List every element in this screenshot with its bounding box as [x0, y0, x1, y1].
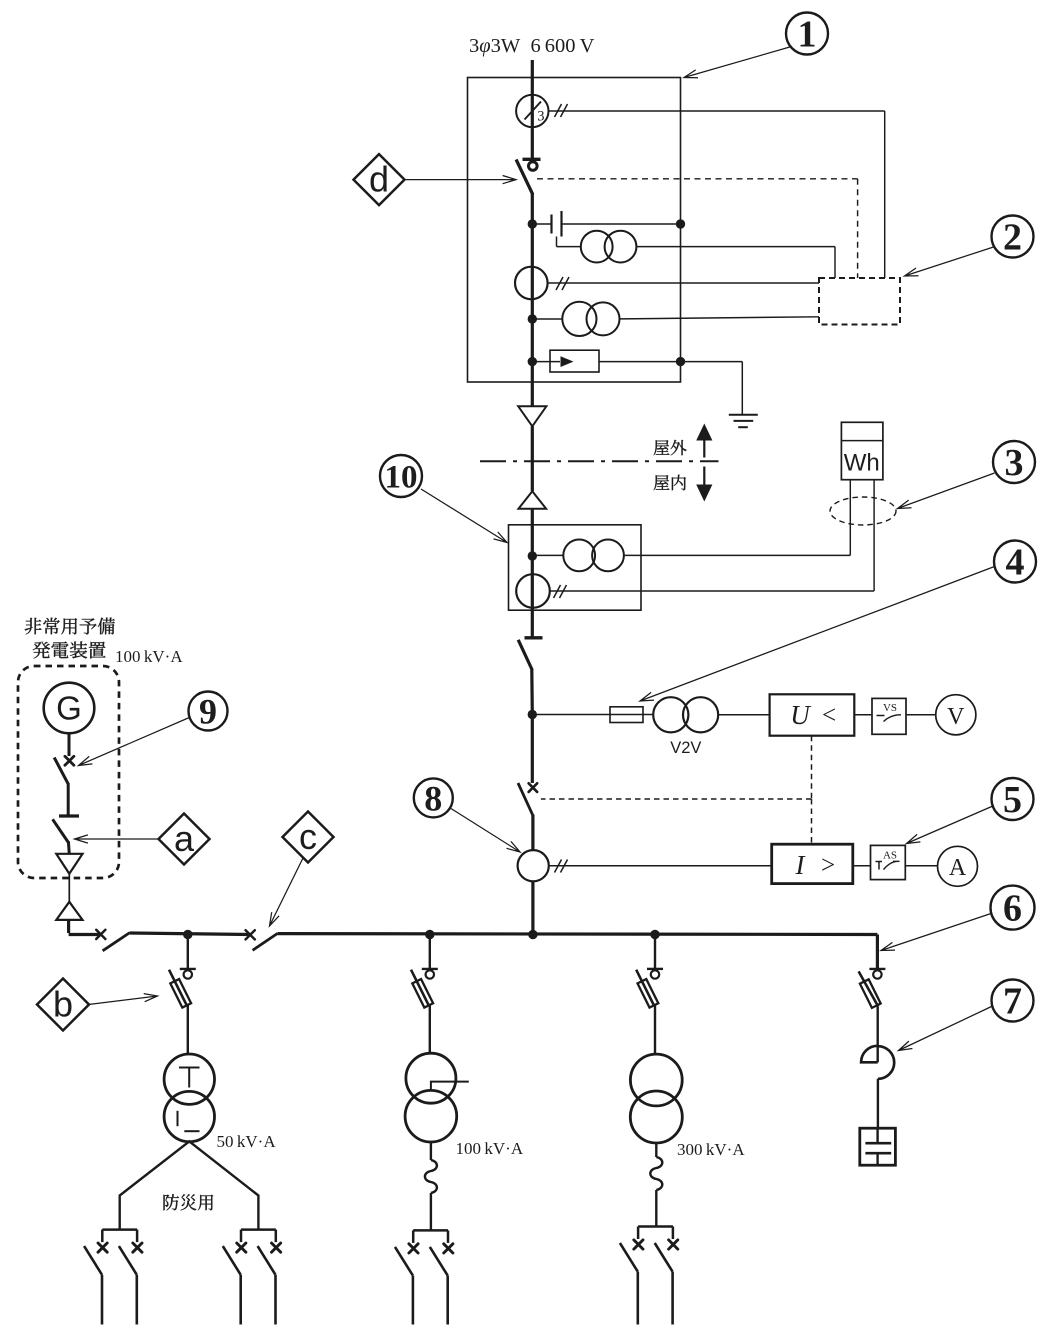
wire VT1 to GR box [636, 246, 835, 248]
wire fuse to 100kVA transformer [429, 1006, 431, 1054]
label indoor 屋内 [654, 475, 686, 491]
transformer VT2 (metering) [532, 318, 562, 320]
node bus tap 100kVA [425, 930, 434, 939]
svg-text:4: 4 [1006, 542, 1025, 584]
callout circle 3 with arrow [898, 473, 995, 509]
wire incoming feeder [531, 60, 534, 159]
VCT metering unit box (callout 10) [509, 525, 642, 610]
cutout PC with fuse - 50kVA branch (callout b) [187, 935, 189, 969]
wire VT2 to GR box [620, 317, 820, 319]
ammeter A [938, 846, 978, 886]
cutout PC with fuse - 100kVA branch [429, 935, 431, 969]
wire 50kVA secondary V-split [120, 1141, 259, 1229]
cable head outdoor (down triangle) [518, 406, 546, 426]
svg-text:a: a [174, 818, 195, 859]
GR ground relay unit dashed box (callout 2) [819, 278, 900, 325]
svg-text:7: 7 [1003, 981, 1022, 1023]
circuit breaker CB [529, 783, 538, 792]
label outdoor 屋外 [654, 440, 687, 455]
callout circle 6 with arrow [881, 914, 991, 951]
metering coupling dashed ellipse (callout 3) [830, 497, 896, 525]
svg-text:100 kV·A: 100 kV·A [115, 647, 183, 666]
CT2 in VCT (circle on main line) [516, 574, 550, 608]
node bus tap main CB [528, 930, 537, 939]
wire OCR to AS switch [853, 865, 871, 867]
wire cable head to boundary [531, 426, 534, 491]
arrow up outdoor side [696, 424, 712, 441]
callout circle 9 with arrow [79, 717, 191, 766]
diamond label b with arrow [89, 994, 158, 1005]
svg-text:1: 1 [798, 14, 817, 56]
wire ZCT secondary with double-slash mark [549, 110, 885, 112]
wire bus right end down to capacitor cutout [876, 935, 879, 969]
wire indoor cable head into VCT box [531, 509, 534, 556]
generator enclosure dashed rounded box [18, 666, 119, 878]
node main-line junction C [528, 357, 537, 366]
transformer T2 100kVA [406, 1053, 456, 1103]
cutout PC with fuse - capacitor branch [869, 968, 885, 970]
svg-text:Wh: Wh [844, 450, 880, 477]
fuse PF for VT (callout 4) [610, 707, 643, 723]
svg-text:>: > [821, 852, 835, 879]
node main-line junction B [528, 314, 537, 323]
svg-text:AS: AS [883, 850, 897, 862]
wire junction D to PF fuse [532, 714, 610, 716]
svg-text:9: 9 [199, 691, 217, 731]
cutout PC with fuse - 300kVA branch [654, 935, 656, 969]
disconnector DS2 [525, 636, 543, 639]
breaker group MCCB 50kVA right [241, 1228, 276, 1231]
bus main horizontal busbar (callout 6) [69, 933, 101, 936]
node junction in VCT box [528, 551, 537, 560]
dashed trip wire DS1 to GR box [537, 178, 858, 180]
wire fuse to series reactor [877, 1007, 879, 1063]
transformer T3 300kVA [630, 1054, 682, 1106]
callout circle 8 with arrow [451, 809, 520, 853]
svg-text:A: A [949, 855, 967, 881]
breaker group MCCB 100kVA [413, 1229, 448, 1232]
wire flexible conductor 100kVA [430, 1142, 432, 1160]
diamond label d with arrow [406, 176, 517, 184]
disconnector DS1 (callout d) [523, 158, 541, 161]
arrow down indoor side [703, 467, 705, 485]
svg-text:10: 10 [385, 459, 418, 495]
svg-text:b: b [53, 983, 73, 1024]
series reactor SR (callout 7) [861, 1046, 878, 1063]
node bus tap 50kVA [183, 930, 192, 939]
wire fuse to 50kVA transformer [187, 1006, 189, 1055]
label fire-protection 防災用 [164, 1194, 214, 1210]
wire AS to ammeter [905, 865, 937, 867]
svg-text:8: 8 [424, 778, 442, 818]
svg-text:VS: VS [883, 702, 897, 714]
wire fuse to V2V transformer [643, 714, 653, 716]
wire fuse to 300kVA transformer [654, 1006, 656, 1056]
svg-text:V: V [947, 704, 965, 730]
svg-text:I: I [795, 850, 807, 880]
wire DS1 to junction [531, 194, 534, 225]
triangle connector upper (generator tie) [56, 854, 82, 874]
transformer T1 50kVA single-phase [164, 1054, 214, 1104]
wire main junction B to C [531, 319, 534, 362]
breaker group MCCB 50kVA left [102, 1228, 137, 1231]
node bus tap 300kVA [650, 930, 659, 939]
svg-text:3: 3 [537, 108, 544, 124]
diamond label c with arrow [270, 858, 304, 926]
enclosure box of incoming switchgear (callout 1) [468, 78, 681, 383]
callout circle 4 with arrow [640, 567, 995, 702]
node arrester output on enclosure edge [676, 357, 685, 366]
ground earth electrode of arrester [729, 414, 758, 416]
svg-text:50 kV·A: 50 kV·A [217, 1132, 277, 1151]
callout circle 1 with arrow [684, 47, 792, 78]
svg-text:5: 5 [1003, 779, 1022, 821]
svg-text:c: c [299, 816, 317, 857]
kilowatt-hour meter Wh [841, 422, 883, 479]
svg-text:2: 2 [1003, 217, 1022, 259]
wire CT3 secondary to OCR [549, 865, 772, 867]
disconnector on bus left of generator tie [96, 930, 105, 939]
breaker group MCCB 300kVA [638, 1225, 673, 1228]
generator G [44, 683, 95, 734]
wire switch to contact bar [67, 783, 70, 815]
callout circle 7 with arrow [899, 1007, 992, 1051]
wire V2V to undervoltage relay [718, 714, 769, 716]
svg-text:V2V: V2V [670, 739, 701, 757]
overcurrent relay I&gt; box [772, 844, 853, 883]
wire arrester to earth [681, 361, 742, 363]
undervoltage relay U&lt; box [770, 694, 855, 735]
ammeter changeover switch AS [871, 845, 906, 879]
svg-text:<: < [822, 702, 836, 729]
CT3 current transformer (callout 8) [518, 850, 549, 881]
transformer VT4 V2V [653, 697, 688, 732]
svg-text:6: 6 [1003, 888, 1022, 930]
callout circle 2 with arrow [905, 247, 994, 276]
diamond label a with arrow [75, 835, 160, 843]
voltmeter changeover switch VS [872, 698, 906, 734]
label generator unit 発電装置 [33, 641, 106, 658]
wire VCT box to DS2 [531, 610, 534, 637]
wire main below enclosure [531, 362, 534, 406]
boundary dash-dot line outdoor/indoor [480, 460, 719, 462]
wire ZCT secondary drop to GR box [884, 111, 886, 278]
switch generator CB (callout 9) [65, 756, 74, 765]
wire junction D to breaker [531, 715, 534, 784]
callout circle 5 with arrow [907, 806, 995, 844]
disconnector on bus (callout c) [246, 930, 255, 939]
wire reactor to capacitor [877, 1079, 879, 1128]
contact bar of interlock switch a [59, 814, 79, 817]
wire generator to switch [68, 733, 71, 756]
svg-text:U: U [790, 700, 811, 730]
CT1 current transformer (circle on main line) [515, 267, 548, 300]
wire main through CT2 [531, 556, 534, 610]
power capacitor SC box [860, 1128, 896, 1165]
surge arrester LA (box with arrow) [532, 361, 560, 363]
wire DS2 to junction D [530, 670, 534, 715]
transformer VT1 (PAS control power) [581, 231, 613, 263]
label emergency standby 非常用予備 [25, 618, 115, 635]
svg-text:300 kV·A: 300 kV·A [677, 1140, 745, 1159]
cable head indoor (up triangle) [519, 491, 547, 509]
wire VT3 to Wh meter [624, 554, 850, 556]
voltmeter V [936, 695, 976, 735]
svg-text:G: G [56, 690, 82, 727]
wire CT3 through to bus [531, 881, 534, 935]
transformer VT3 in VCT [532, 554, 563, 556]
node main-line junction A [528, 219, 537, 228]
node on enclosure right edge (capacitor wire) [676, 219, 685, 228]
wire relay to VS switch [854, 714, 872, 716]
wire VS to voltmeter [906, 714, 936, 716]
wire CT1 secondary to GR box [548, 282, 819, 284]
svg-text:3: 3 [1005, 442, 1024, 484]
switch interlock (callout a) [53, 819, 69, 842]
ZCT zero-phase CT (circle with slash and 3) [516, 95, 548, 127]
node junction D (VT branch) [528, 710, 537, 719]
dashed trip wire UVR to breaker [811, 736, 813, 799]
wire breaker to CT3 [531, 815, 534, 851]
callout circle 10 with arrow [421, 489, 507, 543]
wire CT2 secondary to Wh meter [550, 590, 874, 592]
wire flexible conductor 300kVA [655, 1143, 657, 1157]
triangle connector lower (bus tie) [56, 902, 82, 920]
wire main through CT1 [531, 224, 534, 319]
svg-text:3φ3W 6 600 V: 3φ3W 6 600 V [469, 35, 595, 57]
capacitor voltage-sensing element [532, 223, 551, 225]
svg-text:100 kV·A: 100 kV·A [456, 1139, 524, 1158]
svg-text:d: d [369, 158, 389, 199]
